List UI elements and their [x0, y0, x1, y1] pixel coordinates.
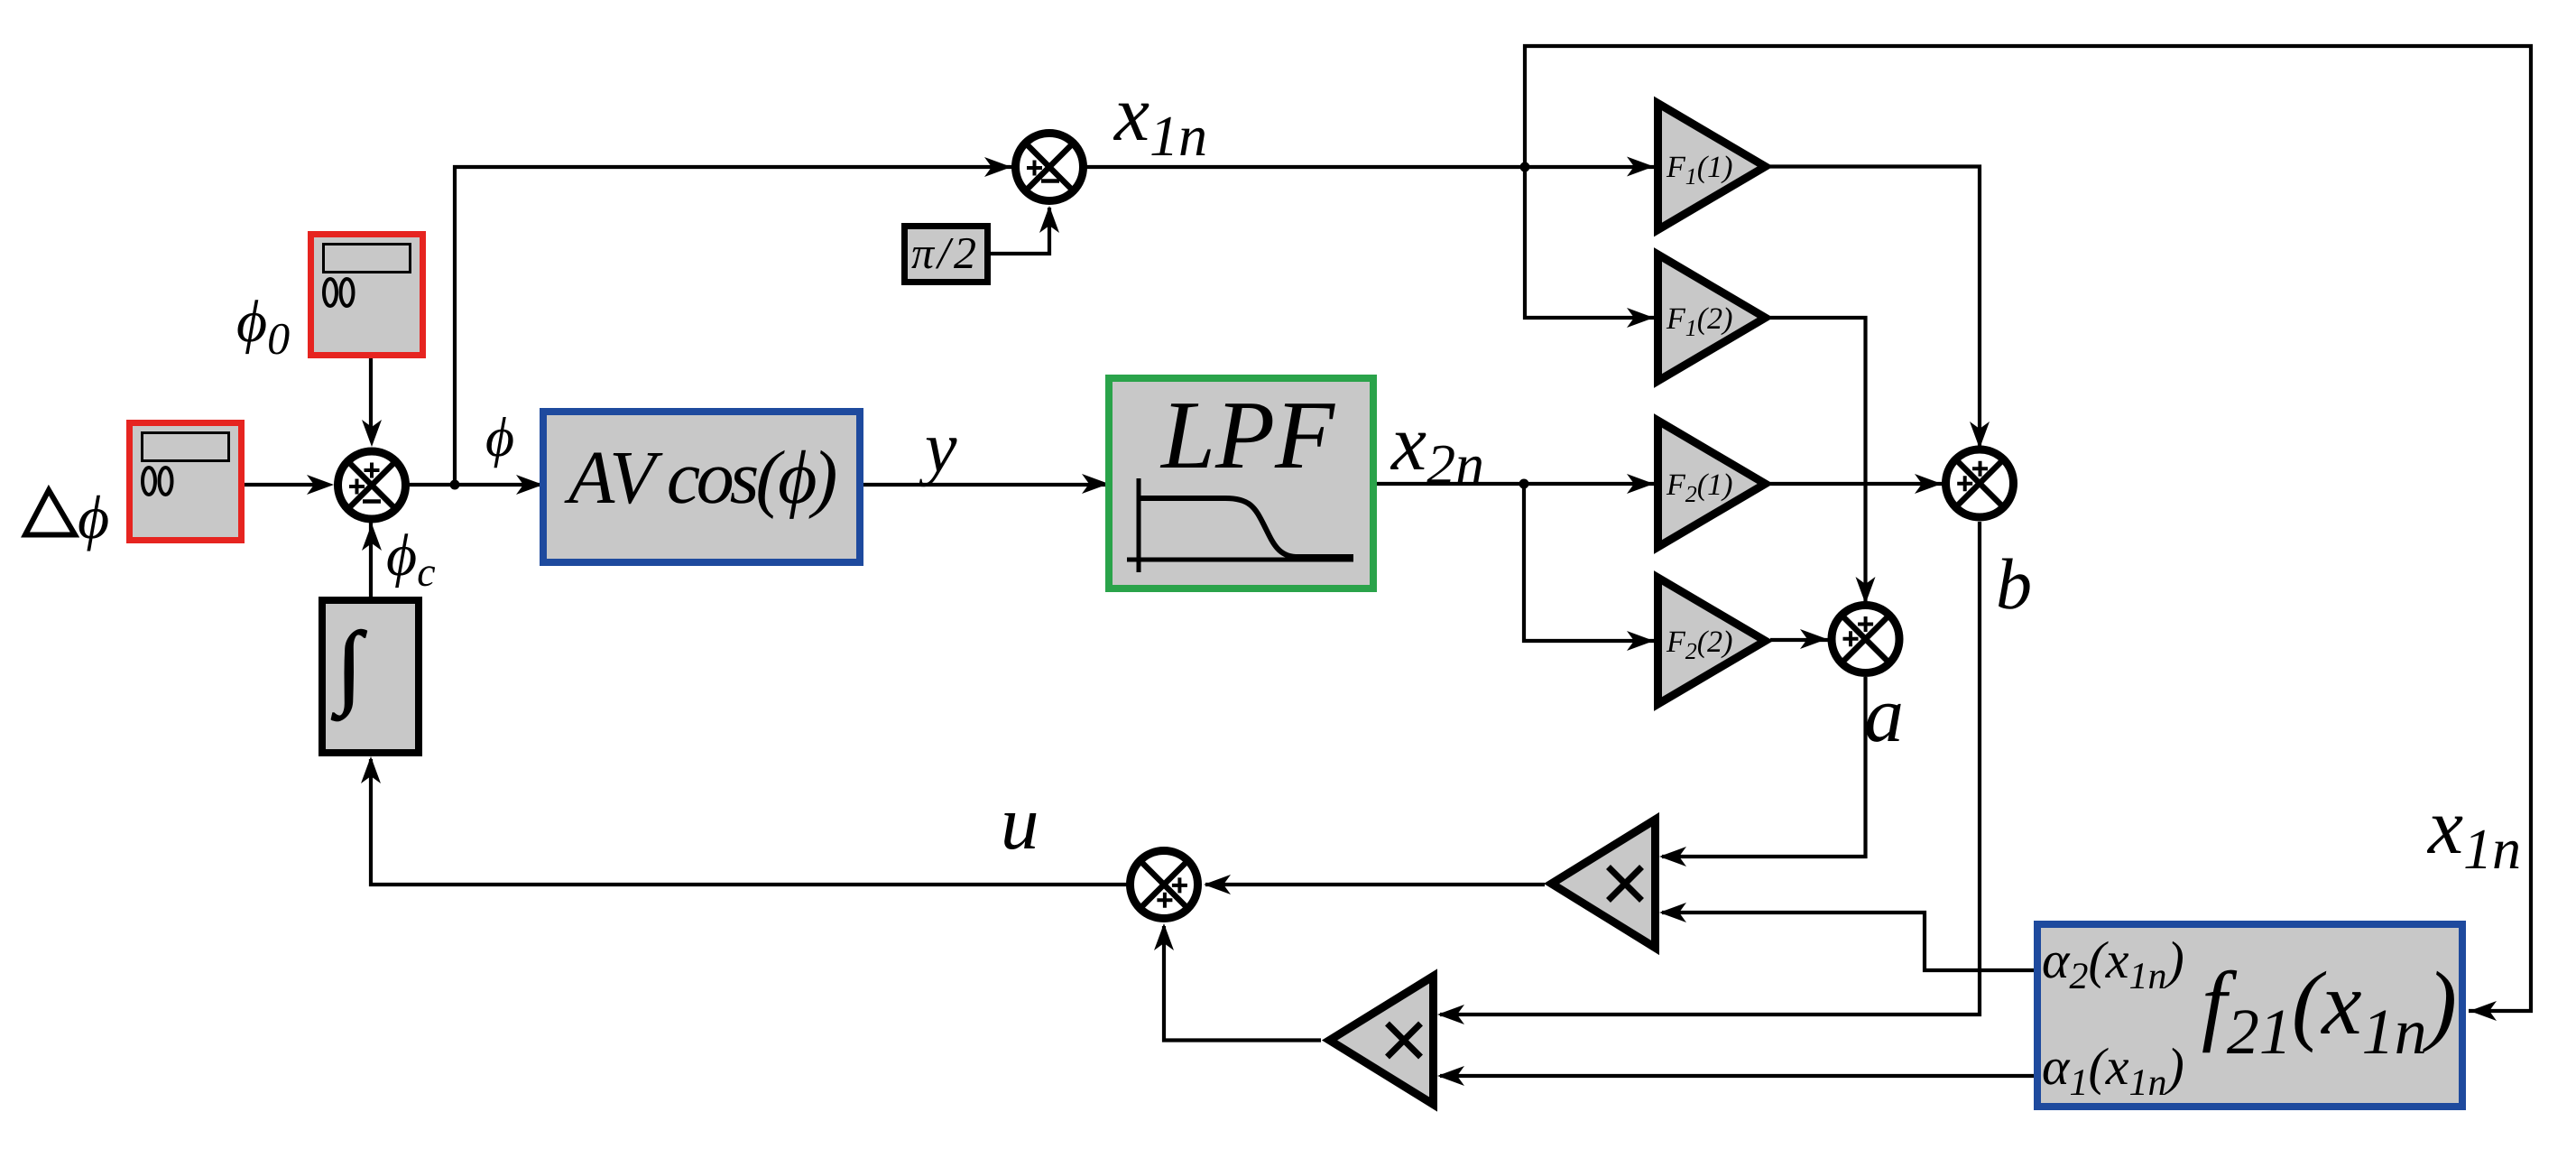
gain F1(1) — [1658, 104, 1766, 230]
node x2n junction dot — [1519, 479, 1529, 489]
label phi — [486, 417, 512, 468]
wire S1 to AVcos block (phi node) — [406, 483, 541, 486]
arrow into sum a left — [1800, 629, 1827, 649]
summing junction u — [1131, 851, 1198, 919]
arrow into S1 left — [307, 475, 334, 495]
label x1n right — [2427, 817, 2519, 868]
arrow into S2 left — [984, 157, 1011, 177]
wire F2(2) to sum a — [1770, 638, 1830, 642]
arrow into M2 lower input — [1437, 1066, 1464, 1086]
wire phi node up and right to S2 — [455, 167, 1013, 485]
wire sum a down to multiplier M1 — [1662, 677, 1866, 857]
arrow into sum u bottom — [1154, 923, 1174, 950]
arrow into F2(1) — [1627, 474, 1654, 494]
wire dphi block to S1 — [245, 483, 325, 486]
label y — [919, 438, 956, 486]
summing junction S1 — [338, 451, 406, 519]
wire M2 output to sum u — [1164, 926, 1321, 1041]
wire AVcos to LPF (y) — [863, 483, 1110, 486]
arrow into sum u right — [1204, 875, 1231, 894]
wire S2 to F1(1) (x_1n) — [1085, 165, 1654, 169]
label a — [1867, 704, 1901, 742]
label delta phi — [25, 490, 75, 535]
arrow into S1 top — [362, 420, 382, 447]
arrow into integrator bottom — [361, 756, 381, 783]
block LPF — [1109, 378, 1373, 588]
source block phi0 — [311, 235, 423, 356]
wire F1(2) to sum a — [1770, 318, 1866, 607]
arrow into S2 bottom — [1039, 206, 1059, 233]
wire sum u output to integrator (u) — [371, 759, 1128, 885]
arrow into M1 lower input — [1659, 903, 1686, 922]
arrow into S1 bottom — [362, 524, 382, 551]
arrow into F1(2) — [1627, 308, 1654, 328]
wire x1n node down to F1(2) — [1525, 167, 1654, 318]
node x1n junction dot — [1520, 162, 1530, 172]
integrator block — [322, 600, 419, 753]
arrow into M1 upper input — [1659, 847, 1686, 866]
wire x1n node up over the top and down to f21 block — [1525, 46, 2531, 1011]
summing junction a — [1832, 606, 1899, 673]
label b — [1999, 559, 2030, 609]
label x1n top — [1113, 104, 1205, 155]
gain F2(2) — [1658, 578, 1766, 704]
label u — [1004, 813, 1036, 849]
arrow into M2 upper input — [1437, 1005, 1464, 1024]
label x2n — [1390, 433, 1482, 484]
wire sum b down to multiplier M2 — [1440, 522, 1980, 1015]
label phi_c — [388, 533, 436, 588]
block pi/2 — [905, 227, 988, 283]
wire x2n node down to F2(2) — [1524, 484, 1654, 641]
wire alpha2 output of f21 to M1 — [1662, 913, 2037, 970]
node phi junction dot — [450, 480, 460, 490]
arrow into F1(1) — [1627, 157, 1654, 177]
wire integrator to S1 (phi_c) — [369, 514, 373, 600]
wire phi0 block to S1 — [369, 358, 373, 433]
arrow into f21 right side — [2470, 1001, 2497, 1021]
summing junction S2 — [1016, 134, 1084, 201]
summing junction b — [1946, 449, 2014, 517]
multiplier M2 — [1330, 977, 1434, 1105]
source block delta phi — [130, 423, 242, 541]
label phi0 — [238, 300, 290, 354]
arrow into sum b top — [1970, 422, 1990, 449]
wire alpha1 output of f21 to M2 — [1440, 1074, 2037, 1078]
multiplier M1 — [1552, 820, 1656, 948]
wire pi/2 block to S2 — [991, 208, 1049, 254]
wire F1(1) to sum b — [1770, 167, 1980, 452]
gain F2(1) — [1658, 421, 1766, 547]
wire LPF to F2(1) (x_2n) — [1377, 482, 1654, 486]
arrow into sum b left — [1915, 474, 1942, 494]
block f21(x1n) — [2037, 924, 2462, 1107]
wire M1 output to sum u — [1205, 883, 1545, 886]
arrow into LPF — [1082, 474, 1109, 494]
arrow into AV block — [516, 475, 543, 495]
gain F1(2) — [1658, 255, 1766, 381]
wire F2(1) to sum b — [1770, 482, 1944, 486]
block AVcos(phi) U1 — [543, 412, 860, 562]
arrow into sum a top — [1856, 577, 1876, 604]
arrow into F2(2) — [1627, 631, 1654, 651]
